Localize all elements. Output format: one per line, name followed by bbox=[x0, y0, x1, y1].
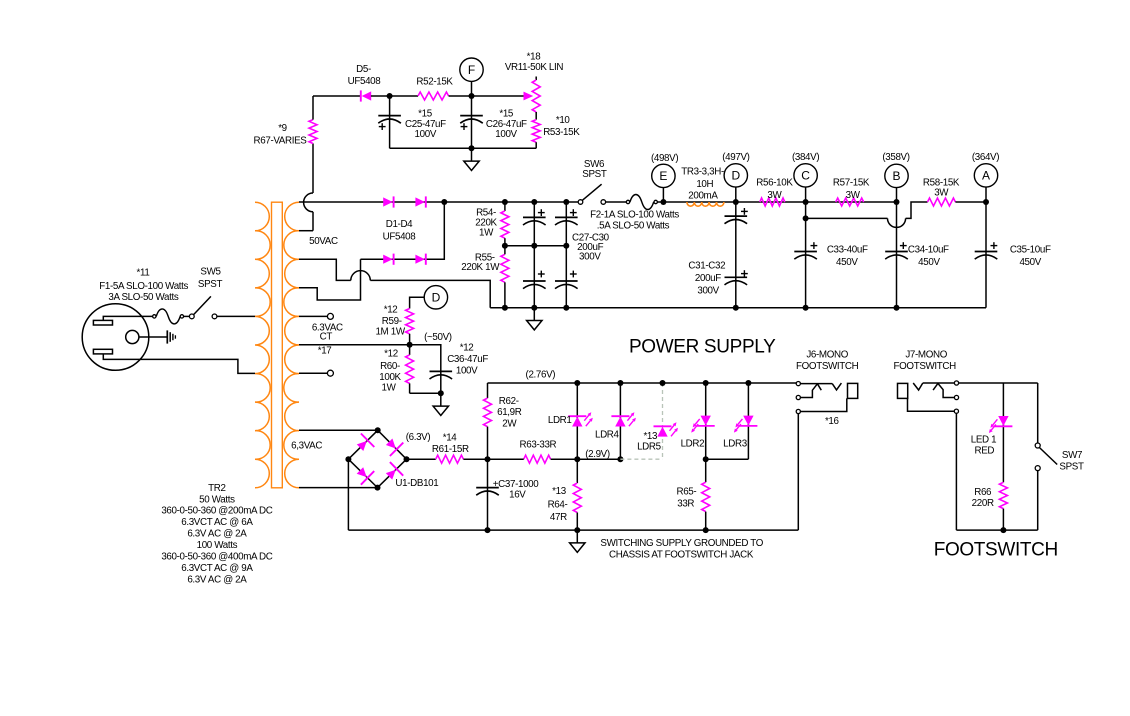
resistor R55 bbox=[501, 246, 509, 308]
svg-text:100V: 100V bbox=[415, 129, 437, 140]
fuse F1 bbox=[153, 309, 184, 324]
wire bridge neg to ground rail bbox=[347, 459, 349, 530]
svg-text:CHASSIS AT FOOTSWITCH JACK: CHASSIS AT FOOTSWITCH JACK bbox=[609, 549, 754, 560]
label LDR4 bbox=[595, 429, 620, 440]
resistor R67 bbox=[309, 120, 317, 144]
svg-text:2W: 2W bbox=[502, 419, 517, 430]
label J7 bbox=[894, 350, 957, 373]
label C35 bbox=[1010, 244, 1051, 268]
wire bypass to R58 bbox=[906, 202, 928, 218]
svg-text:CT: CT bbox=[320, 332, 333, 343]
diode D2 bbox=[415, 196, 425, 207]
wire footswitch rail bbox=[956, 527, 1037, 533]
junction bbox=[441, 199, 447, 205]
wire J6 sleeve to ground rail bbox=[797, 414, 799, 530]
svg-text:100 Watts: 100 Watts bbox=[197, 540, 238, 551]
svg-text:300V: 300V bbox=[697, 285, 719, 296]
label R67 bbox=[254, 123, 308, 147]
led LED1 column bbox=[1002, 383, 1004, 482]
resistor R57 bbox=[836, 198, 864, 206]
svg-text:R66: R66 bbox=[974, 487, 992, 498]
svg-text:16V: 16V bbox=[509, 490, 526, 501]
svg-text:100V: 100V bbox=[495, 129, 517, 140]
wire diode row2 bbox=[361, 202, 445, 259]
resistor R64 bbox=[573, 459, 581, 530]
wire SW7 to rail bbox=[1037, 471, 1039, 530]
svg-text:D1-D4: D1-D4 bbox=[386, 219, 413, 230]
svg-text:220K 1W: 220K 1W bbox=[461, 262, 500, 273]
hop tap3 wire over row2 branch bbox=[351, 271, 371, 281]
wire R61 to C37 bbox=[463, 456, 490, 462]
wire tap3 to HT rail bbox=[370, 280, 490, 307]
label R64 bbox=[548, 486, 568, 523]
svg-text:.5A SLO-50 Watts: .5A SLO-50 Watts bbox=[597, 220, 670, 231]
junction bbox=[502, 199, 569, 205]
label R54 bbox=[475, 208, 497, 239]
label C36 bbox=[447, 342, 488, 376]
led LDR3 bbox=[734, 416, 758, 433]
capacitor C27 bbox=[523, 202, 546, 246]
svg-text:F: F bbox=[468, 63, 475, 77]
title POWER SUPPLY bbox=[629, 336, 776, 357]
wire C column bbox=[803, 187, 809, 311]
wire R63 left bbox=[488, 458, 524, 460]
svg-text:LDR1: LDR1 bbox=[548, 415, 572, 426]
wire plug hot to fuse bbox=[103, 316, 152, 320]
svg-text:LDR2: LDR2 bbox=[681, 438, 705, 449]
svg-text:J6-MONO: J6-MONO bbox=[806, 350, 848, 361]
label R56 bbox=[756, 178, 793, 201]
wire 6.3VAC to bridge bottom bbox=[299, 487, 378, 489]
svg-text:UF5408: UF5408 bbox=[348, 76, 382, 87]
led LED1 bbox=[989, 416, 1013, 433]
wire ground rail bbox=[348, 527, 798, 533]
capacitor C35 bbox=[975, 242, 998, 259]
svg-text:R56-10K: R56-10K bbox=[756, 178, 793, 189]
label R53 bbox=[543, 115, 580, 138]
svg-text:*14: *14 bbox=[443, 433, 458, 444]
svg-text:(2.9V): (2.9V) bbox=[585, 449, 610, 460]
svg-text:220R: 220R bbox=[972, 498, 994, 509]
photoresistor LDR4 column bbox=[617, 380, 623, 459]
label 6.3VAC CT bbox=[312, 322, 343, 356]
svg-text:RED: RED bbox=[974, 445, 994, 456]
svg-text:33R: 33R bbox=[677, 499, 694, 510]
svg-text:LDR4: LDR4 bbox=[595, 429, 620, 440]
wire A column bbox=[985, 187, 987, 308]
diode D3 bbox=[383, 254, 393, 265]
label 498V bbox=[651, 153, 678, 164]
label C31-C32 bbox=[688, 260, 725, 296]
svg-text:100K: 100K bbox=[379, 372, 401, 383]
label C25 bbox=[405, 108, 446, 140]
svg-text:450V: 450V bbox=[918, 257, 940, 268]
svg-text:*15: *15 bbox=[499, 108, 514, 119]
svg-text:450V: 450V bbox=[836, 257, 858, 268]
wire stub 6.3VAC top bbox=[299, 313, 333, 319]
chassis ground bbox=[167, 330, 175, 343]
node D bbox=[724, 164, 747, 187]
wire R58 to A bbox=[955, 199, 989, 205]
capacitor C28 bbox=[555, 202, 578, 246]
wire tap2 to R67 column bbox=[299, 230, 313, 232]
label 6.3V bbox=[406, 432, 431, 443]
label SW7 bbox=[1059, 450, 1084, 472]
resistor R52 bbox=[418, 92, 449, 100]
transformer TR2 core bbox=[272, 202, 283, 488]
svg-text:47R: 47R bbox=[550, 512, 567, 523]
svg-text:R62-: R62- bbox=[499, 396, 519, 407]
label C37 bbox=[493, 479, 540, 501]
photoresistor LDR3 column bbox=[745, 380, 751, 459]
label R66 bbox=[972, 487, 994, 509]
wire fuse to SW5 bbox=[184, 315, 190, 317]
svg-text:360-0-50-360 @400mA DC: 360-0-50-360 @400mA DC bbox=[161, 551, 272, 562]
svg-text:+C37-1000: +C37-1000 bbox=[493, 479, 540, 490]
label R65 bbox=[676, 486, 696, 509]
label *11 bbox=[137, 267, 150, 278]
bridge diode 2 bbox=[386, 439, 403, 457]
svg-text:R67-VARIES: R67-VARIES bbox=[254, 136, 308, 147]
resistor R62 bbox=[484, 383, 492, 459]
title FOOTSWITCH bbox=[934, 540, 1058, 561]
label SW6 bbox=[582, 159, 607, 180]
label ~50V bbox=[424, 332, 452, 343]
wire plug pin to chassis bbox=[139, 336, 168, 338]
svg-text:(364V): (364V) bbox=[972, 152, 999, 163]
hop bypass over B column bbox=[888, 218, 906, 227]
svg-text:B: B bbox=[892, 169, 900, 183]
svg-text:*11: *11 bbox=[137, 267, 150, 278]
wire D5 to junction bbox=[371, 95, 390, 97]
svg-text:C35-10uF: C35-10uF bbox=[1010, 244, 1051, 255]
svg-text:D5-: D5- bbox=[356, 64, 371, 75]
label C27-C30 bbox=[572, 232, 610, 262]
wire tap4 bbox=[299, 259, 361, 300]
capacitor C32 bbox=[725, 270, 748, 285]
capacitor C30 bbox=[555, 246, 578, 308]
bridge diode 1 bbox=[357, 434, 375, 452]
dashed LDR5 link bbox=[620, 380, 665, 459]
svg-text:C31-C32: C31-C32 bbox=[688, 260, 725, 271]
label R57 bbox=[833, 178, 870, 201]
capacitor C36 bbox=[410, 345, 453, 394]
wire R67 to D5 wire bbox=[312, 96, 314, 120]
svg-text:(358V): (358V) bbox=[882, 152, 909, 163]
svg-text:(~50V): (~50V) bbox=[424, 332, 452, 343]
svg-text:1W: 1W bbox=[382, 382, 397, 393]
svg-text:*18: *18 bbox=[527, 52, 542, 63]
label U1 bbox=[395, 478, 438, 489]
svg-text:LED 1: LED 1 bbox=[971, 435, 996, 446]
inductor TR3 bbox=[687, 202, 724, 206]
svg-text:10H: 10H bbox=[696, 179, 713, 190]
wire tap1 50VAC top bbox=[299, 201, 444, 203]
wire R63 to node bbox=[551, 456, 581, 462]
svg-text:100V: 100V bbox=[456, 366, 478, 377]
svg-text:C36-47uF: C36-47uF bbox=[447, 354, 488, 365]
svg-text:POWER SUPPLY: POWER SUPPLY bbox=[629, 336, 776, 357]
ground C36 bbox=[433, 393, 448, 415]
capacitor C37 bbox=[476, 459, 499, 530]
label LDR2 bbox=[681, 438, 705, 449]
wire bridge pos to R61 bbox=[407, 458, 436, 460]
svg-text:A: A bbox=[982, 169, 990, 183]
svg-text:*17: *17 bbox=[318, 346, 332, 357]
svg-text:360-0-50-360 @200mA DC: 360-0-50-360 @200mA DC bbox=[161, 506, 272, 517]
wire J7 sleeve to footswitch rail bbox=[955, 413, 957, 530]
wire LDR2-LDR3 row bbox=[703, 456, 749, 462]
svg-text:SPST: SPST bbox=[198, 279, 223, 290]
label R59 bbox=[375, 304, 405, 337]
wire LDR top rail bbox=[488, 382, 797, 384]
node C bbox=[794, 164, 817, 187]
bridge diode 3 bbox=[357, 467, 375, 485]
svg-text:TR2: TR2 bbox=[208, 483, 225, 494]
wire D5 anode bbox=[313, 95, 360, 97]
svg-text:R57-15K: R57-15K bbox=[833, 178, 870, 189]
led LDR5 bbox=[654, 422, 679, 436]
wire 2.9V row bbox=[577, 456, 623, 462]
svg-text:D: D bbox=[432, 291, 441, 305]
wire C25-C26 rail bbox=[390, 145, 537, 151]
diode D5 bbox=[361, 90, 371, 101]
svg-text:*13: *13 bbox=[643, 431, 658, 442]
wire F stem bbox=[469, 81, 475, 99]
svg-text:61,9R: 61,9R bbox=[497, 407, 522, 418]
svg-text:FOOTSWITCH: FOOTSWITCH bbox=[934, 540, 1058, 561]
svg-text:*12: *12 bbox=[384, 304, 398, 315]
svg-text:200mA: 200mA bbox=[688, 191, 718, 202]
resistor R60 bbox=[406, 345, 414, 384]
led LDR4 bbox=[611, 412, 636, 426]
capacitor C31 bbox=[725, 208, 748, 224]
wire 6.3VAC to bridge top bbox=[299, 429, 378, 431]
svg-text:*15: *15 bbox=[418, 108, 433, 119]
capacitor C25 bbox=[378, 96, 401, 148]
svg-text:R63-33R: R63-33R bbox=[520, 439, 557, 450]
svg-text:*13: *13 bbox=[552, 486, 567, 497]
svg-text:3A SLO-50 Watts: 3A SLO-50 Watts bbox=[108, 292, 179, 303]
switch SW5 bbox=[189, 296, 217, 318]
svg-text:F1-5A SLO-100 Watts: F1-5A SLO-100 Watts bbox=[99, 281, 188, 292]
label LDR3 bbox=[723, 438, 748, 449]
wire tap3 bbox=[299, 259, 351, 280]
hop R67 column over tap1 bbox=[304, 193, 313, 212]
led LDR1 bbox=[568, 412, 593, 426]
ground HT rail bbox=[527, 308, 542, 330]
svg-text:(384V): (384V) bbox=[792, 152, 819, 163]
wire R60 bottom bbox=[410, 383, 444, 396]
svg-text:R61-15R: R61-15R bbox=[432, 444, 469, 455]
jack J7 bbox=[898, 381, 959, 413]
ground F rail bbox=[464, 148, 479, 170]
svg-text:C: C bbox=[801, 169, 810, 183]
svg-text:*9: *9 bbox=[278, 123, 287, 134]
svg-text:3W: 3W bbox=[934, 188, 949, 199]
label LDR5 bbox=[637, 431, 662, 453]
svg-text:SWITCHING SUPPLY GROUNDED TO: SWITCHING SUPPLY GROUNDED TO bbox=[600, 538, 763, 549]
wire SW5 to primary bbox=[217, 315, 255, 317]
wire E stem bbox=[662, 188, 664, 202]
node A bbox=[974, 164, 997, 187]
wire R59 to junction bbox=[407, 334, 413, 348]
label F2 rating bbox=[590, 210, 679, 232]
svg-text:6.3VCT AC @ 9A: 6.3VCT AC @ 9A bbox=[181, 563, 253, 574]
wire R67 column upper bbox=[312, 144, 314, 194]
svg-text:LDR3: LDR3 bbox=[723, 438, 748, 449]
label LDR1 bbox=[548, 415, 572, 426]
wire stub 6.3VAC bottom bbox=[299, 370, 333, 376]
svg-text:6.3VCT AC @ 6A: 6.3VCT AC @ 6A bbox=[181, 517, 253, 528]
label C26 bbox=[486, 108, 527, 140]
wire F to VR11 wiper bbox=[472, 95, 525, 97]
svg-text:R59-: R59- bbox=[382, 316, 402, 327]
svg-text:E: E bbox=[659, 169, 667, 183]
svg-text:F2-1A SLO-100 Watts: F2-1A SLO-100 Watts bbox=[590, 210, 679, 221]
svg-text:(2.76V): (2.76V) bbox=[526, 370, 556, 381]
label R55 bbox=[461, 252, 500, 273]
label R62 bbox=[497, 396, 522, 430]
label R63 bbox=[520, 439, 557, 450]
wire C bypass bbox=[806, 217, 888, 219]
label 50VAC bbox=[309, 236, 338, 247]
label TR3 bbox=[681, 167, 724, 202]
svg-text:3W: 3W bbox=[767, 190, 782, 201]
jack J6 bbox=[796, 382, 858, 414]
label D5 bbox=[348, 64, 382, 87]
label grounding note bbox=[600, 538, 763, 560]
node D bias bbox=[424, 286, 447, 309]
label 6,3VAC bbox=[291, 440, 322, 451]
label 384V bbox=[792, 152, 819, 163]
label C34 bbox=[908, 244, 949, 268]
svg-text:50VAC: 50VAC bbox=[309, 236, 338, 247]
svg-text:3W: 3W bbox=[846, 190, 861, 201]
wire junction to R52 bbox=[390, 95, 418, 97]
node B bbox=[885, 164, 908, 187]
wire D bias to R59 bbox=[410, 297, 425, 308]
resistor R65 bbox=[702, 459, 710, 530]
svg-text:SW5: SW5 bbox=[200, 266, 221, 277]
wire R67 column lower bbox=[312, 212, 314, 231]
svg-text:200uF: 200uF bbox=[695, 273, 721, 284]
junction bbox=[387, 93, 393, 99]
svg-text:FOOTSWITCH: FOOTSWITCH bbox=[894, 361, 957, 372]
label 364V bbox=[972, 152, 999, 163]
svg-text:R60-: R60- bbox=[380, 361, 400, 372]
wire HT rail bbox=[490, 305, 986, 311]
svg-text:UF5408: UF5408 bbox=[383, 232, 417, 243]
photoresistor LDR2 column bbox=[703, 380, 709, 459]
wire J7 tip to SW7 bbox=[959, 382, 1038, 384]
svg-text:R52-15K: R52-15K bbox=[416, 77, 453, 88]
resistor R66 bbox=[999, 482, 1007, 530]
wire mid row bbox=[502, 243, 569, 249]
label 358V bbox=[882, 152, 909, 163]
capacitor C29 bbox=[523, 246, 546, 308]
photoresistor LDR1 column bbox=[574, 380, 580, 459]
svg-text:U1-DB101: U1-DB101 bbox=[395, 478, 438, 489]
resistor R54 bbox=[501, 202, 509, 246]
potentiometer VR11 bbox=[532, 77, 540, 113]
resistor R63 bbox=[524, 455, 551, 463]
svg-text:SW7: SW7 bbox=[1062, 450, 1082, 461]
svg-text:1M 1W: 1M 1W bbox=[375, 327, 405, 338]
diode D1 bbox=[383, 196, 393, 207]
svg-text:6.3V AC @ 2A: 6.3V AC @ 2A bbox=[187, 574, 247, 585]
label SW5 bbox=[198, 266, 223, 290]
wire R53 to rail bbox=[535, 142, 537, 148]
label D1-D4 bbox=[383, 219, 417, 243]
resistor R56 bbox=[760, 198, 785, 206]
label TR2 specs bbox=[161, 483, 272, 585]
svg-text:J7-MONO: J7-MONO bbox=[905, 350, 947, 361]
ground switching supply bbox=[570, 530, 585, 552]
resistor R59 bbox=[406, 309, 414, 334]
label 2.76V bbox=[526, 370, 556, 381]
bridge rectifier U1-DB101 bbox=[345, 427, 409, 490]
wire B column bbox=[894, 188, 900, 311]
label 497V bbox=[722, 152, 749, 163]
svg-text:6,3VAC: 6,3VAC bbox=[291, 440, 322, 451]
svg-text:D: D bbox=[731, 169, 740, 183]
svg-text:C34-10uF: C34-10uF bbox=[908, 244, 949, 255]
node E bbox=[652, 164, 675, 187]
label LED1 bbox=[971, 435, 996, 457]
svg-text:C33-40uF: C33-40uF bbox=[827, 244, 868, 255]
label R61 bbox=[432, 433, 469, 455]
resistor R58 bbox=[928, 198, 956, 206]
wire main HT bbox=[444, 201, 578, 203]
label C33 bbox=[827, 244, 868, 268]
svg-text:*10: *10 bbox=[556, 115, 571, 126]
transformer TR2 primary winding bbox=[255, 202, 270, 488]
mains plug P1 bbox=[82, 304, 149, 371]
svg-text:SPST: SPST bbox=[1059, 461, 1084, 472]
fuse F2 bbox=[626, 195, 657, 210]
svg-text:TR3-3,3H-: TR3-3,3H- bbox=[681, 167, 724, 178]
led LDR2 bbox=[691, 416, 715, 433]
svg-text:300V: 300V bbox=[579, 251, 601, 262]
svg-text:1W: 1W bbox=[479, 228, 494, 239]
wire F2 to E bbox=[658, 199, 667, 205]
svg-text:VR11-50K LIN: VR11-50K LIN bbox=[505, 62, 564, 73]
wire CT tap bbox=[299, 344, 410, 346]
node F bbox=[460, 58, 483, 81]
wire VR11 to R53 bbox=[535, 112, 537, 120]
label R58 bbox=[923, 178, 960, 199]
diode D4 bbox=[415, 254, 425, 265]
label 2.9V bbox=[585, 449, 610, 460]
svg-text:450V: 450V bbox=[1019, 257, 1041, 268]
svg-text:*12: *12 bbox=[384, 349, 398, 360]
svg-text:*12: *12 bbox=[460, 342, 474, 353]
svg-text:SPST: SPST bbox=[582, 169, 607, 180]
wire R52 to F node bbox=[449, 95, 472, 97]
svg-text:R53-15K: R53-15K bbox=[543, 127, 580, 138]
wire SW7 branch bbox=[1037, 383, 1039, 443]
svg-text:(498V): (498V) bbox=[651, 153, 678, 164]
svg-text:50 Watts: 50 Watts bbox=[199, 494, 235, 505]
resistor R61 bbox=[436, 455, 464, 463]
label J6 bbox=[796, 350, 859, 373]
bridge diode 4 bbox=[386, 462, 403, 480]
svg-text:R65-: R65- bbox=[676, 486, 696, 497]
switch SW6 bbox=[578, 184, 605, 204]
svg-text:*16: *16 bbox=[825, 416, 840, 427]
svg-text:FOOTSWITCH: FOOTSWITCH bbox=[796, 361, 859, 372]
